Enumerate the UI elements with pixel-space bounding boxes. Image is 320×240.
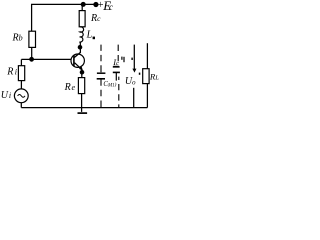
capacitor C2 top plate: [113, 66, 120, 68]
svg-text:Ri: Ri: [6, 66, 17, 77]
svg-text:Ic: Ic: [112, 58, 119, 67]
node supply junction: [81, 2, 86, 7]
wire Re to rail and ground stub: [81, 94, 83, 112]
Uo arrowhead: [132, 69, 136, 73]
transistor T circle: [71, 54, 84, 67]
wire RL top: [146, 43, 148, 68]
terminal +Ec dot: [93, 2, 98, 7]
resistor Rb: [29, 31, 36, 47]
speck dot 1: [131, 58, 132, 60]
transistor base bar: [73, 55, 75, 67]
resistor Ri: [18, 66, 24, 81]
resistor Rc: [79, 11, 85, 27]
svg-text:Re: Re: [64, 82, 76, 93]
speck after L: [93, 37, 95, 40]
dashed line C2 lower: [118, 77, 120, 108]
Uo lower line: [133, 88, 135, 108]
wire base horizontal: [21, 58, 71, 60]
speck dot 2: [139, 73, 141, 75]
wire bottom rail: [21, 107, 147, 109]
dashed line C2 upper: [117, 45, 119, 62]
capacitor C2 bottom plate: [113, 71, 120, 73]
transistor emitter: [75, 63, 82, 70]
dashed line C1 upper: [100, 45, 102, 73]
resistor Re: [78, 78, 84, 94]
transistor emitter arrowhead: [79, 65, 83, 71]
ground bar: [78, 112, 88, 114]
wire down to Ri: [20, 59, 22, 65]
wire source to rail: [20, 103, 22, 108]
wire collector: [74, 42, 80, 58]
wire Ri to source: [20, 81, 22, 89]
wire left vertical to Rb: [31, 4, 33, 31]
wire emitter to Re: [81, 70, 83, 78]
node emitter dot: [80, 70, 85, 75]
capacitor C1 top plate: [97, 72, 106, 74]
source Ui circle: [14, 89, 28, 103]
svg-text:c: c: [109, 2, 113, 12]
node collector dot: [78, 45, 83, 50]
svg-text:Rb: Rb: [12, 33, 23, 44]
svg-text:Ui: Ui: [1, 90, 11, 101]
node base junction: [29, 57, 34, 62]
svg-text:Rc: Rc: [90, 13, 101, 24]
capacitor C1 bottom plate: [97, 78, 105, 80]
capacitor C1 lower stub: [100, 79, 102, 107]
wire top rail: [31, 3, 96, 5]
wire RL bottom: [146, 84, 148, 108]
source sine: [18, 95, 25, 98]
capacitor C2 lower stub: [115, 73, 117, 81]
svg-text:L: L: [86, 30, 93, 41]
wire Rb to base node: [31, 47, 33, 59]
inductor L: [79, 27, 83, 42]
wire junction to Rc: [81, 4, 83, 10]
resistor RL: [143, 69, 149, 84]
Uo arrow upper line: [133, 45, 135, 70]
